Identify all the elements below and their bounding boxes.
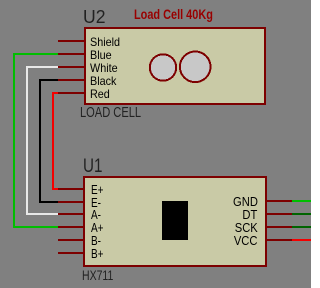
pin name SCK <box>235 221 258 234</box>
wire: U2 Red pin to U1 E+ pin (red) <box>53 93 60 189</box>
pin U2 Black stub <box>58 79 86 81</box>
component U2 load cell body <box>85 28 265 104</box>
pin name A+ <box>91 221 104 234</box>
pin U2 Shield stub <box>58 40 86 42</box>
wire: U2 Blue pin to U1 A+ pin (green) <box>14 54 60 227</box>
load cell left button circle <box>150 54 176 80</box>
reference designator U2 <box>83 8 105 27</box>
reference designator U1 <box>83 157 102 176</box>
pin name B- <box>91 234 101 247</box>
pin U1 SCK stub <box>265 226 292 228</box>
wire: U1 GND pin to right edge (green) <box>292 200 311 202</box>
pin U1 B- stub <box>58 239 85 241</box>
pin U2 Red stub <box>58 92 86 94</box>
pin U2 White stub <box>58 66 86 68</box>
value label: Load Cell 40Kg <box>134 7 213 21</box>
pin U1 A+ stub <box>58 226 85 228</box>
pin name Red <box>90 88 110 100</box>
pin name A- <box>91 208 101 221</box>
pin name B+ <box>91 247 104 260</box>
pin U1 VCC stub <box>265 239 292 241</box>
pin name White <box>90 62 118 74</box>
component U1 HX711 body <box>84 177 266 266</box>
pin name E+ <box>91 183 104 196</box>
wire: U1 VCC pin to right edge (red) <box>292 239 311 241</box>
wire: U1 DT pin to right edge (dark green) <box>292 213 311 215</box>
pin U1 DT stub <box>265 213 292 215</box>
pin name Shield <box>90 36 120 48</box>
pin U2 Blue stub <box>58 53 86 55</box>
caption HX711 <box>82 268 113 282</box>
caption LOAD CELL <box>80 105 141 120</box>
pin U1 E+ stub <box>58 188 85 190</box>
HX711 chip mark (black rectangle) <box>162 201 188 240</box>
pin U1 GND stub <box>265 200 292 202</box>
pin name VCC <box>234 234 258 247</box>
wire: U2 White pin to U1 A- pin (white) <box>27 67 60 214</box>
pin name GND <box>233 195 258 208</box>
pin name Black <box>90 75 116 87</box>
pin U1 A- stub <box>58 213 85 215</box>
wire: U2 Black pin to U1 E- pin (black) <box>40 80 60 202</box>
pin name Blue <box>90 49 112 61</box>
pin name E- <box>91 196 101 209</box>
load cell right button circle <box>180 52 211 83</box>
wire: U1 SCK pin to right edge (dark green) <box>292 226 311 228</box>
pin U1 E- stub <box>58 201 85 203</box>
pin name DT <box>243 208 258 221</box>
pin U1 B+ stub <box>58 252 85 254</box>
